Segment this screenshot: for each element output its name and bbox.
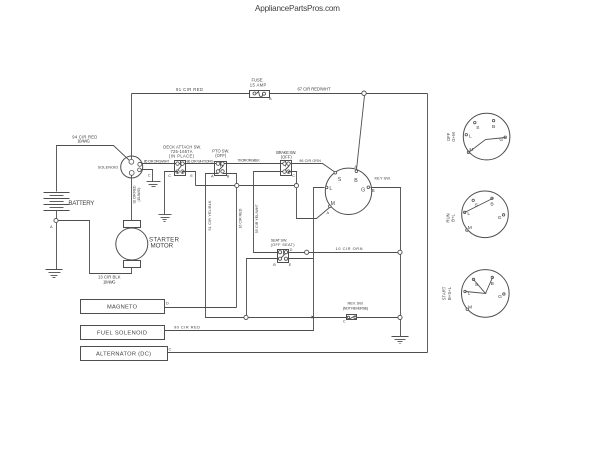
svg-text:L: L xyxy=(467,211,470,217)
svg-text:C: C xyxy=(169,346,172,351)
svg-text:L: L xyxy=(468,290,471,296)
node L-line / brake C xyxy=(294,184,298,188)
svg-text:(OFF): (OFF) xyxy=(281,155,293,160)
wire bottom of outer loop (alternator C) xyxy=(168,352,428,354)
wire right side of outer loop xyxy=(427,94,429,353)
magneto box xyxy=(81,300,170,314)
label 50 CIR YEL/WHT rotated xyxy=(255,203,259,233)
wire solenoid to starter motor (92 CIR RED) xyxy=(131,176,133,221)
svg-text:96 CIR ORN: 96 CIR ORN xyxy=(299,159,321,163)
svg-text:MAGNETO: MAGNETO xyxy=(107,305,138,311)
svg-text:(NOT REVERSE): (NOT REVERSE) xyxy=(343,306,369,311)
svg-text:16 CIR RED: 16 CIR RED xyxy=(239,208,243,228)
svg-text:OFFG+M: OFFG+M xyxy=(446,132,456,142)
brake switch S3 xyxy=(276,150,296,178)
svg-text:L: L xyxy=(329,186,332,192)
wire node down to M terminal of key switch xyxy=(297,188,330,219)
svg-text:C: C xyxy=(148,173,151,178)
wire battery node to starter motor (13 CIR BLK) xyxy=(59,221,132,274)
label START B+S+L rotated xyxy=(442,286,452,300)
wire seat B down to 317 line xyxy=(247,259,278,316)
svg-text:(OFF SEAT): (OFF SEAT) xyxy=(271,242,296,247)
svg-text:S: S xyxy=(338,177,342,183)
svg-text:B: B xyxy=(269,96,272,101)
label OFF G+M rotated xyxy=(446,132,456,142)
rev switch S5 xyxy=(343,300,369,323)
starter motor M1 xyxy=(116,221,180,268)
svg-text:E: E xyxy=(190,174,193,178)
wire top bus right segment (67 CIR RED/WHT) xyxy=(270,93,428,95)
svg-text:FUEL SOLENOID: FUEL SOLENOID xyxy=(97,331,147,337)
wire deck switch E down to L-line xyxy=(183,172,196,186)
svg-text:10 AWG: 10 AWG xyxy=(103,279,116,284)
svg-text:BATTERY: BATTERY xyxy=(68,200,94,207)
svg-text:SOLENOID: SOLENOID xyxy=(98,165,119,170)
wire battery to node A xyxy=(56,211,58,219)
svg-text:(OFF): (OFF) xyxy=(215,153,227,158)
svg-text:RUNB+L: RUNB+L xyxy=(445,213,455,222)
PTO switch S2 xyxy=(211,148,230,178)
alternator box xyxy=(81,346,172,360)
seat switch S4 xyxy=(271,238,296,267)
wire node to ground xyxy=(400,320,402,337)
node seat D line xyxy=(305,250,309,254)
wire switch bus 85 CIR ORG/WHT to key S xyxy=(142,164,336,173)
svg-text:D: D xyxy=(290,248,293,252)
svg-text:91 CIR RED: 91 CIR RED xyxy=(176,87,203,92)
key switch xyxy=(325,165,391,215)
wire magneto D line xyxy=(165,307,237,309)
svg-text:G: G xyxy=(361,187,365,193)
node G vertical / 10 CIR ORN xyxy=(398,250,402,254)
svg-text:B: B xyxy=(491,281,494,287)
svg-text:M: M xyxy=(468,225,472,231)
svg-text:G: G xyxy=(498,215,502,221)
wire seat E to vertical xyxy=(289,258,314,260)
wire solenoid aux to ground C xyxy=(142,170,153,182)
junction arrow at 317 line xyxy=(312,316,316,319)
svg-text:85 CIR ORG/WHT: 85 CIR ORG/WHT xyxy=(144,159,170,163)
wire brake switch C down to L-line node xyxy=(289,172,297,184)
svg-text:90 CIR RED: 90 CIR RED xyxy=(174,324,200,329)
svg-text:10 AWG: 10 AWG xyxy=(77,139,90,144)
svg-text:D: D xyxy=(166,301,169,306)
wire PTO A down to magneto line and 317 line xyxy=(206,174,244,318)
svg-text:70 CIR ORG/BLK: 70 CIR ORG/BLK xyxy=(237,159,260,163)
svg-text:E: E xyxy=(289,263,292,267)
wire key G terminal right and down xyxy=(371,188,401,251)
battery BT1 xyxy=(44,193,95,211)
svg-text:ALTERNATOR (DC): ALTERNATOR (DC) xyxy=(96,351,151,357)
wire node A to ground xyxy=(56,223,58,270)
ground solenoid C xyxy=(147,182,161,187)
node L-line / PTO B xyxy=(235,183,239,187)
wire 317 line middle xyxy=(249,317,347,319)
key position diagram RUN xyxy=(462,191,509,238)
svg-text:15 AMP: 15 AMP xyxy=(250,82,267,87)
svg-text:B: B xyxy=(492,124,495,130)
key position diagram START xyxy=(462,270,510,318)
svg-text:10 CIR ORN: 10 CIR ORN xyxy=(336,246,363,251)
wire battery to solenoid (94 CIR RED) xyxy=(57,146,130,192)
wire PTO B down to L-line node xyxy=(223,174,237,184)
svg-text:86 CIR WHT/ORG: 86 CIR WHT/ORG xyxy=(187,159,214,163)
svg-text:M: M xyxy=(468,304,472,310)
svg-text:A: A xyxy=(50,224,53,229)
key position diagram OFF xyxy=(463,113,510,160)
ground deck switch xyxy=(159,215,172,222)
svg-text:50 CIR YEL/WHT: 50 CIR YEL/WHT xyxy=(255,203,259,233)
svg-text:(10 AWG): (10 AWG) xyxy=(137,188,141,202)
deck attach switch S1 xyxy=(163,144,201,178)
node A xyxy=(54,218,58,222)
wire PTO B node continuation down to magneto wire xyxy=(236,188,238,308)
svg-text:L: L xyxy=(469,134,472,140)
node top junction xyxy=(362,91,366,95)
wire brake switch left to seat switch (50 CIR YEL/WHT) xyxy=(254,172,283,253)
svg-text:51 CIR YEL/BLK: 51 CIR YEL/BLK xyxy=(208,200,212,231)
svg-text:(IN PLACE): (IN PLACE) xyxy=(169,154,195,159)
label 51 CIR YEL/BLK rotated xyxy=(208,200,212,231)
svg-text:AppliancePartsPros.com: AppliancePartsPros.com xyxy=(255,4,340,13)
svg-text:B: B xyxy=(372,188,375,193)
wire left vertical from top bus to solenoid xyxy=(131,94,133,160)
node 317 line left xyxy=(244,315,248,319)
label RUN B+L rotated xyxy=(445,213,455,222)
svg-text:A: A xyxy=(327,211,330,215)
svg-text:C: C xyxy=(292,174,295,178)
wire deck switch C to ground xyxy=(165,172,178,215)
wire seat D to key G vertical (10 CIR ORN) xyxy=(289,252,398,254)
label 92 CIR RED rotated xyxy=(133,185,141,203)
wire top bus left segment (91 CIR RED) xyxy=(132,93,250,95)
svg-text:C: C xyxy=(168,174,171,178)
svg-text:67 CIR RED/WHT: 67 CIR RED/WHT xyxy=(298,87,331,92)
fuse F1 15 AMP xyxy=(250,77,273,101)
wire diagonal node to key switch B xyxy=(357,96,365,170)
svg-text:C: C xyxy=(343,319,346,323)
solenoid xyxy=(98,156,143,178)
svg-text:G: G xyxy=(498,294,502,300)
wire key L terminal to long vertical and fuel solenoid xyxy=(165,188,325,331)
svg-text:B: B xyxy=(490,202,493,208)
svg-text:B: B xyxy=(354,178,358,184)
label 16 CIR RED rotated xyxy=(239,208,243,228)
svg-text:B: B xyxy=(227,175,230,179)
svg-text:MOTOR: MOTOR xyxy=(151,243,174,250)
fuel solenoid box xyxy=(81,326,165,340)
ground right xyxy=(392,337,409,344)
svg-text:M: M xyxy=(331,201,335,207)
node 317 line right xyxy=(398,315,402,319)
wire L-line horizontal xyxy=(196,185,295,187)
ground battery xyxy=(46,270,63,278)
wire G vertical lower xyxy=(400,255,402,316)
svg-text:KEY SW.: KEY SW. xyxy=(375,175,391,180)
svg-text:STARTB+S+L: STARTB+S+L xyxy=(442,286,452,300)
wire 317 line right xyxy=(357,317,398,319)
svg-text:REV. SW.: REV. SW. xyxy=(348,300,364,305)
